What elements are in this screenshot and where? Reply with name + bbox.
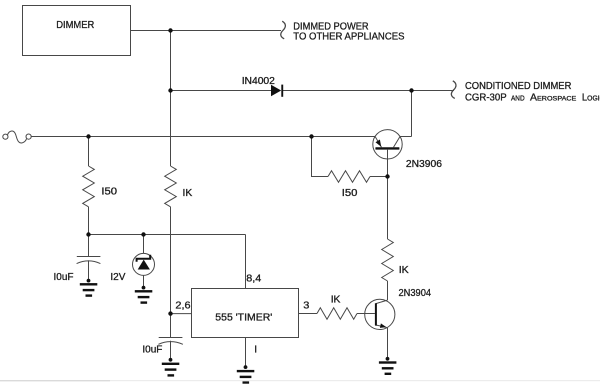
svg-text:2N3904: 2N3904 <box>399 288 432 299</box>
svg-text:I50: I50 <box>342 187 358 198</box>
svg-text:IK: IK <box>399 265 409 276</box>
svg-text:IK: IK <box>183 188 193 199</box>
svg-text:I: I <box>254 344 257 355</box>
svg-text:I0uF: I0uF <box>142 345 162 356</box>
svg-text:Logic: Logic <box>582 92 600 103</box>
svg-text:IK: IK <box>331 295 341 306</box>
svg-text:IN4002: IN4002 <box>242 76 276 87</box>
svg-text:I0uF: I0uF <box>54 272 74 283</box>
svg-text:Aerospace: Aerospace <box>530 93 577 104</box>
svg-text:DIMMER: DIMMER <box>56 20 94 31</box>
svg-text:I2V: I2V <box>110 272 125 283</box>
svg-text:3: 3 <box>303 300 309 311</box>
svg-text:CONDITIONED DIMMER: CONDITIONED DIMMER <box>465 81 571 92</box>
svg-text:I50: I50 <box>101 186 117 197</box>
svg-text:555 'TIMER': 555 'TIMER' <box>215 313 272 324</box>
svg-text:2N3906: 2N3906 <box>406 159 442 170</box>
svg-text:8,4: 8,4 <box>246 274 261 285</box>
svg-text:CGR-30P: CGR-30P <box>465 92 507 103</box>
svg-text:TO OTHER APPLIANCES: TO OTHER APPLIANCES <box>293 31 405 42</box>
svg-text:and: and <box>511 92 525 103</box>
svg-text:2,6: 2,6 <box>175 301 190 312</box>
